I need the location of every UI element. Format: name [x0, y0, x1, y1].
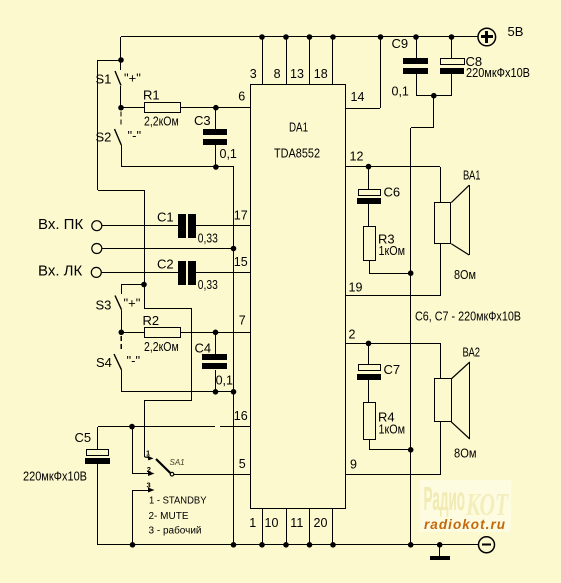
svg-text:C9: C9 — [392, 36, 409, 51]
svg-text:DA1: DA1 — [289, 120, 308, 135]
speaker BA2 — [435, 343, 470, 474]
switch S2 — [115, 129, 122, 167]
switch SA1 contact 3 arrowhead — [148, 488, 155, 493]
wire pin1 — [262, 508, 264, 545]
svg-text:9: 9 — [350, 458, 357, 472]
svg-text:radiokot.ru: radiokot.ru — [424, 517, 506, 532]
svg-text:"+": "+" — [124, 296, 141, 311]
switch SA1 blade — [156, 459, 170, 473]
capacitor C6 — [357, 167, 381, 226]
wire bottom ground bus — [98, 544, 478, 546]
svg-text:12: 12 — [350, 150, 364, 164]
wire pin12 line — [345, 166, 440, 168]
wire pin19 line — [345, 295, 440, 297]
node V1 on bus — [231, 542, 237, 548]
svg-text:10: 10 — [265, 516, 279, 530]
svg-text:C5: C5 — [75, 430, 92, 445]
node C7 top junction — [366, 341, 372, 347]
resistor R3 — [364, 227, 412, 274]
svg-text:6: 6 — [238, 89, 245, 103]
svg-text:1: 1 — [146, 448, 150, 457]
svg-text:"-": "-" — [127, 353, 141, 368]
node C6 top junction — [366, 164, 372, 170]
capacitor C9 — [403, 37, 428, 96]
capacitor C3 — [203, 108, 227, 167]
svg-text:C6: C6 — [384, 185, 401, 200]
wire SA1 pivot to pin5 — [174, 474, 250, 476]
wire dashed gang link S1-S2 — [120, 112, 122, 128]
wire pin14 to bus — [345, 37, 381, 109]
svg-text:0,33: 0,33 — [198, 231, 218, 245]
capacitor C2 — [178, 261, 196, 285]
node pin14 riser on bus — [378, 34, 384, 40]
switch SA1 contact 2 arrowhead — [148, 471, 155, 476]
svg-text:ВА2: ВА2 — [463, 345, 481, 360]
resistor R4 — [364, 403, 412, 451]
node S3/S4 to R2 junction — [119, 330, 125, 336]
wire input common to V1 — [102, 248, 234, 250]
wire pin10 — [286, 508, 288, 545]
node R4 on V2 — [408, 447, 414, 453]
svg-text:2,2кОм: 2,2кОм — [144, 115, 179, 129]
svg-text:Вх. ПК: Вх. ПК — [38, 216, 83, 233]
node S1/S2 to R1 junction — [118, 105, 124, 111]
node pin18 on bus — [330, 34, 336, 40]
svg-text:S3: S3 — [96, 298, 112, 313]
node S3 top junction — [141, 282, 147, 288]
wire C9/C8 bottom link — [416, 95, 452, 97]
wire vertical net V1 — [233, 167, 235, 545]
capacitor C7 — [357, 343, 381, 403]
wire C3 junction to vertical net V1 — [216, 166, 234, 168]
node C8 on bus — [449, 34, 455, 40]
node C9 on bus — [413, 34, 419, 40]
svg-text:S4: S4 — [96, 355, 112, 370]
capacitor C1 — [178, 214, 196, 238]
node pin13 on bus — [307, 34, 313, 40]
node R3 on V2 — [408, 270, 414, 276]
svg-text:1кОм: 1кОм — [379, 244, 406, 258]
svg-text:ВА1: ВА1 — [463, 168, 481, 183]
wire pin3 — [262, 37, 264, 84]
svg-text:2- MUTE: 2- MUTE — [149, 511, 189, 522]
node C9/C8 bottom junction — [431, 93, 437, 99]
svg-text:11: 11 — [290, 516, 303, 530]
wire pin11 — [309, 508, 311, 545]
wire vertical net V2 — [411, 96, 435, 545]
node R2 output / C4 top junction — [213, 330, 219, 336]
wire S2 bottom to C3 junction — [121, 166, 216, 168]
capacitor C4 — [202, 332, 227, 392]
svg-text:R2: R2 — [143, 313, 160, 328]
svg-text:220мкФх10В: 220мкФх10В — [23, 470, 87, 484]
node C4 bottom junction — [213, 389, 219, 395]
wire pin8 — [286, 37, 288, 84]
wire pin7 into IC — [216, 332, 250, 334]
svg-text:1 - STANDBY: 1 - STANDBY — [149, 496, 207, 507]
node pin11 on bus — [307, 542, 313, 548]
node R1 output / C3 top junction — [213, 105, 219, 111]
watermark logo — [419, 480, 511, 532]
node pin1 on bus — [259, 542, 265, 548]
switch S4 — [114, 354, 122, 392]
wire pin13 — [309, 37, 311, 84]
svg-text:5В: 5В — [508, 24, 524, 39]
wire standby feed from S3 junction — [144, 284, 192, 458]
svg-text:19: 19 — [349, 281, 363, 295]
wire top supply bus — [121, 36, 478, 38]
wire bus corner down to S1 — [120, 37, 122, 60]
svg-text:20: 20 — [314, 516, 328, 530]
svg-text:SA1: SA1 — [170, 458, 185, 467]
wire rail down to S3 — [144, 190, 146, 284]
wire SA1 contact 3 — [132, 490, 150, 545]
terminal minus — [479, 537, 495, 553]
svg-text:C7: C7 — [384, 362, 401, 377]
capacitor C8 — [440, 37, 465, 96]
capacitor C5 — [85, 427, 110, 545]
node pin8 on bus — [283, 34, 289, 40]
wire pin2 line — [345, 343, 441, 345]
node contact3 on bus — [130, 542, 136, 548]
svg-text:2: 2 — [147, 465, 151, 474]
svg-text:0,33: 0,33 — [198, 278, 218, 292]
svg-text:5: 5 — [239, 457, 246, 471]
node C3 bottom junction — [213, 164, 219, 170]
node common on V1 — [231, 246, 237, 252]
ground — [430, 545, 450, 560]
switch SA1 pivot — [170, 472, 174, 476]
wire S4 bottom to C4 bottom junction — [122, 391, 216, 393]
svg-text:0,1: 0,1 — [392, 85, 409, 99]
wire SA1 contact 2 — [132, 427, 150, 474]
terminal input common — [92, 244, 102, 254]
wire pin6 into IC — [216, 107, 250, 109]
terminal +5V — [478, 28, 496, 46]
wire pin9 line — [345, 474, 441, 476]
svg-text:C3: C3 — [194, 113, 211, 128]
node pin16 / C5 junction — [129, 424, 135, 430]
svg-text:"-": "-" — [128, 128, 142, 143]
node V2 on bus — [408, 542, 414, 548]
svg-text:17: 17 — [234, 209, 248, 223]
svg-text:C4: C4 — [195, 341, 212, 356]
svg-text:"+": "+" — [124, 71, 141, 86]
node ground on bus — [437, 542, 443, 548]
svg-text:3: 3 — [147, 480, 151, 489]
wire C1 to pin17 — [195, 225, 250, 227]
wire left rail down — [97, 60, 99, 190]
svg-text:8: 8 — [274, 67, 281, 81]
speaker BA1 — [435, 167, 470, 296]
svg-text:220мкФх10В: 220мкФх10В — [466, 66, 530, 80]
switch S3 — [115, 284, 122, 332]
svg-text:18: 18 — [314, 67, 328, 81]
svg-text:C1: C1 — [157, 210, 174, 225]
wire rail step right — [98, 190, 144, 192]
svg-text:8Ом: 8Ом — [454, 446, 477, 461]
svg-text:3 - рабочий: 3 - рабочий — [149, 525, 202, 537]
wire C4 junction to V1 — [216, 391, 234, 393]
svg-text:13: 13 — [290, 67, 304, 81]
wire junction to left rail — [98, 60, 121, 62]
wire C2 to pin15 — [195, 272, 250, 274]
wire input RC to C1 — [102, 225, 178, 227]
svg-text:Радио: Радио — [424, 481, 466, 518]
svg-text:R1: R1 — [143, 88, 160, 103]
wire pin20 — [332, 508, 334, 545]
svg-text:C2: C2 — [157, 257, 174, 272]
svg-text:Вх. ЛК: Вх. ЛК — [38, 263, 83, 280]
wire dashed gang link S3-S4 — [120, 336, 122, 352]
svg-text:0,1: 0,1 — [220, 147, 237, 161]
svg-text:С6, С7 - 220мкФх10В: С6, С7 - 220мкФх10В — [415, 309, 521, 324]
svg-text:15: 15 — [234, 255, 248, 269]
op-amp U1 IC DA1 body — [251, 85, 346, 509]
node C4 line on V1 — [231, 389, 237, 395]
node pin3 on bus — [259, 34, 265, 40]
switch S1 — [115, 60, 121, 108]
wire pin16 line — [98, 426, 250, 428]
terminal input left channel — [91, 267, 101, 277]
svg-text:1кОм: 1кОм — [379, 423, 406, 437]
terminal input right channel — [92, 221, 102, 231]
node pin20 on bus — [330, 542, 336, 548]
wire pin18 — [332, 37, 334, 84]
wire input LC to C2 — [101, 272, 178, 274]
svg-text:TDA8552: TDA8552 — [274, 146, 320, 161]
svg-text:14: 14 — [351, 90, 365, 104]
svg-text:0,1: 0,1 — [216, 374, 233, 388]
svg-text:3: 3 — [250, 67, 257, 81]
wire junction left to S3 — [122, 284, 144, 286]
resistor R2 — [121, 328, 216, 338]
svg-text:8Ом: 8Ом — [454, 267, 476, 282]
svg-text:S1: S1 — [96, 72, 112, 87]
resistor R1 — [121, 103, 216, 113]
svg-text:1: 1 — [249, 516, 256, 530]
svg-text:2: 2 — [349, 328, 356, 342]
switch SA1 contact 1 arrowhead — [148, 456, 154, 461]
svg-text:2,2кОм: 2,2кОм — [144, 340, 179, 354]
svg-text:7: 7 — [239, 314, 246, 328]
node S1 top junction — [118, 57, 124, 63]
node pin10 on bus — [283, 542, 289, 548]
svg-text:16: 16 — [234, 409, 248, 423]
svg-text:S2: S2 — [96, 130, 112, 145]
